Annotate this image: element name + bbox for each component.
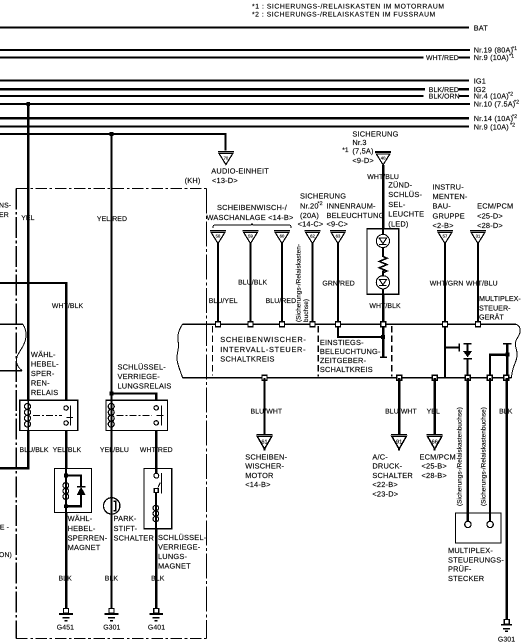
svg-text:(Sicherungs-/Relaiskasten-: (Sicherungs-/Relaiskasten- [295,244,302,322]
pin test connector on bottom bus [487,375,492,380]
node Nr.9 (10A) *1 label [474,53,514,62]
label WHT/GRN [430,280,464,287]
note *1 fuse/relay box engine compartment [252,4,445,11]
pin WHT/BLU on top bus [476,322,481,327]
pin GRN/RED on top bus [336,322,341,327]
svg-text:NS-: NS- [0,203,11,210]
svg-text:57: 57 [443,233,448,238]
svg-text:G301: G301 [498,636,515,643]
svg-text:SCHEIBENWISCHER-: SCHEIBENWISCHER- [220,335,306,344]
label YEL/RED [97,216,127,223]
svg-text:BLK: BLK [151,576,165,583]
divider dash-dot between wiper and entry light circuits [317,326,319,377]
label GRN/RED [322,280,354,287]
box SCHLUESSEL-VERRIEGELUNGS-MAGNET [144,469,172,529]
svg-text:<28-D>: <28-D> [477,221,503,230]
wire GRN/RED down to module pin [337,244,339,323]
svg-text:YEL/BLK: YEL/BLK [53,447,82,454]
wire BLK inside module [506,344,508,378]
svg-text:WHT/RED: WHT/RED [426,55,459,62]
svg-text:BLU/YEL: BLU/YEL [209,298,238,305]
relay K1 internal dash-dot link [33,414,62,416]
torn edge wave right [512,324,521,378]
svg-text:<2-B>: <2-B> [433,221,454,230]
label BLK right [499,408,513,415]
label A/C-DRUCK-SCHALTER <22-B> <23-D> [372,453,412,499]
solenoid L1 wire and coil [63,469,69,513]
svg-text:(Sicherungs-/Relaiskastenbuchs: (Sicherungs-/Relaiskastenbuchse) [481,407,488,506]
node IG1 label [474,76,486,85]
svg-text:<23-D>: <23-D> [372,489,398,498]
svg-text:BLU/WHT: BLU/WHT [385,408,417,415]
wire branch to test connector pin [490,355,507,378]
connector triangle 61 wiper motor [257,435,273,451]
svg-text:MAGNET: MAGNET [68,543,101,552]
wire to test connector pin 2 [489,378,491,521]
svg-text:SPER-: SPER- [31,369,55,378]
svg-text:WHT/BLU: WHT/BLU [466,280,498,287]
svg-text:58: 58 [216,233,221,238]
junction dot on audio line node B [110,132,114,136]
svg-text:G301: G301 [103,625,120,632]
connector triangle 63 interior light [330,231,346,244]
wire to test connector pin 1 [467,378,469,521]
svg-text:SICHERUNG: SICHERUNG [300,192,346,201]
svg-text:*1: *1 [342,147,349,154]
label SICHERUNG Nr.20 (20A) <14-C> [298,192,347,229]
svg-text:BAT: BAT [474,23,489,32]
wire BLK to ground G401 [155,529,157,609]
dashed box right edge [206,188,208,638]
svg-text:63: 63 [336,233,341,238]
wire WHT/BLU ECM down to module pin [477,244,479,323]
svg-text:WHT/BLK: WHT/BLK [52,303,84,310]
junction dot BLK branch [505,353,509,357]
svg-text:ZÜND-: ZÜND- [388,180,412,189]
wire stub Nr.9*1 [459,56,470,58]
label G401 [148,625,165,632]
relay K1 coil [25,400,31,430]
relay K2 switch contacts [154,405,163,425]
svg-text:ER: ER [0,212,9,219]
wire YEL to ECM [434,378,436,434]
wire fuse Nr.19 (80A) bus [0,49,470,51]
svg-text:BLK/ORN: BLK/ORN [429,94,460,101]
svg-text:ECM/PCM: ECM/PCM [420,453,456,462]
label SCHEIBENWISCHER-INTERVALL-STEUER-SCHALTKREIS [220,335,306,363]
wire IG2 bus BLK/RED [0,88,425,90]
svg-text:LEUCHTE: LEUCHTE [388,210,424,219]
label WHT/RED lock [140,447,173,454]
svg-text:40: 40 [381,156,386,161]
box MULTIPLEX test connector [456,513,502,543]
label BLU/RED [266,298,297,305]
svg-text:WHT/GRN: WHT/GRN [430,280,464,287]
svg-text:<25-B>: <25-B> [422,462,447,471]
label YEL/BLK [53,447,82,454]
label (KH) [185,176,201,185]
relay K2 coil [108,403,114,430]
svg-text:SCHLÜS-: SCHLÜS- [388,190,422,199]
label ECM/PCM <25-D> <28-D> [477,202,513,230]
svg-text:G451: G451 [57,625,74,632]
label G301 left [103,625,120,632]
label BLK G451 [59,576,73,583]
node BAT label [474,23,489,32]
LED unit box key light [367,229,399,295]
svg-text:MULTIPLEX-: MULTIPLEX- [479,294,521,303]
label BLU/YEL [209,298,238,305]
label ZUEND-SCHLUES-SEL-LEUCHTE (LED) [388,180,424,228]
svg-text:SCHALTER: SCHALTER [372,471,412,480]
svg-text:PARK-: PARK- [114,514,137,523]
wire BLU/BLK from relay K1 coil exits left [0,431,28,469]
wire fuse Nr.9 (10A)*2 bus [0,126,469,128]
svg-text:BLU/RED: BLU/RED [266,298,297,305]
relay K1 switch contacts [64,405,73,425]
label fragment ON) left edge [0,552,12,559]
label INNENRAUM-BELEUCHTUNG <9-C> [327,201,385,228]
connector triangle 62 fuse Nr.20 [305,231,321,244]
svg-text:VERRIEGE-: VERRIEGE- [158,543,201,552]
dashed box bottom edge [16,638,206,640]
svg-text:62: 62 [310,233,315,238]
junction dot solenoid top [64,474,68,478]
svg-text:(KH): (KH) [185,176,201,185]
svg-text:<14-B>: <14-B> [245,480,270,489]
label EINSTIEGS-BELEUCHTUNG-ZEITGEBER-SCHALTKREIS [320,338,381,374]
park pin switch symbol [104,498,120,514]
wire YEL/BLU from relay K2 coil to park pin switch [110,431,112,498]
svg-text:AUDIO-EINHEIT: AUDIO-EINHEIT [211,166,269,175]
dashed box around column relays top edge [16,187,206,189]
svg-text:INTERVALL-STEUER-: INTERVALL-STEUER- [220,345,306,354]
label AUDIO-EINHEIT <13-D> [211,166,269,185]
svg-text:BELEUCHTUNG: BELEUCHTUNG [327,211,385,220]
wire fuse Nr.9 (10A)*1 bus WHT/RED [0,56,423,58]
svg-text:BLK: BLK [499,408,513,415]
svg-text:*2: *2 [512,114,517,120]
module strip top bus main [183,323,516,325]
svg-text:SCHLÜSSEL-: SCHLÜSSEL- [118,362,167,371]
node Nr.9 (10A) *2 label [474,122,515,131]
branch of WHT/GRN with end bar [445,344,459,352]
wire fuse Nr.14 (10A) bus [0,117,469,119]
svg-text:<13-D>: <13-D> [212,176,238,185]
svg-text:WHT/BLK: WHT/BLK [369,303,401,310]
label ECM/PCM <25-B> <28-B> [420,453,456,480]
label SCHLUESSEL-VERRIEGE-LUNGSRELAIS [118,362,172,390]
svg-text:REN-: REN- [31,378,50,387]
label WHT/RED [426,55,459,62]
svg-text:GRUPPE: GRUPPE [433,211,465,220]
pin BLU/WHT AC on bottom bus [397,375,402,380]
svg-text:SEL-: SEL- [388,200,406,209]
svg-text:YEL: YEL [427,408,440,415]
svg-text:ZEITGEBER-: ZEITGEBER- [320,356,367,365]
connector triangle 60 wiper 3 [274,231,290,244]
svg-text:SPERREN-: SPERREN- [68,533,108,542]
label PARK-STIFT-SCHALTER [114,514,154,542]
connector triangle 59 wiper 2 [243,231,259,244]
junction dot YEL/RED branch [110,392,114,396]
connector triangle 31 ECM/PCM [470,231,486,244]
label WAEHL-HEBEL-SPERREN-MAGNET [68,514,108,552]
label BLU/BLK [238,280,267,287]
svg-text:SCHEIBENWISCH-/: SCHEIBENWISCH-/ [217,203,288,212]
wire BLU/YEL down to module pin [217,244,219,323]
label BLU/WHT AC [385,408,417,415]
diode D3 inside module [464,344,472,378]
wire BLU/WHT to AC switch [398,378,400,434]
divider dash-dot wiper circuit left [211,326,213,376]
label rotated (Sicherungs-/Relaiskasten- buchse) [295,244,310,322]
svg-text:SCHALTKREIS: SCHALTKREIS [220,354,275,363]
label rotated (Sicherungs-/Relaiskastenbuchse) 2 [481,407,488,506]
svg-text:60: 60 [280,233,285,238]
wire YEL/RED into relay K2 coil [110,393,112,403]
label BLU/WHT [251,408,283,415]
connector triangle 70 to audio unit [218,152,234,165]
label WAEHL-HEBEL-SPER-REN-RELAIS [31,350,59,397]
svg-text:91: 91 [396,439,402,445]
wire WHT/RED from relay K2 switch to lock solenoid [155,431,157,469]
svg-text:<28-B>: <28-B> [422,471,447,480]
label INSTRU-MENTEN-BAU-GRUPPE <2-B> [433,183,468,230]
svg-text:BLK: BLK [59,576,73,583]
relay K2 box key interlock relay [106,400,168,430]
divider dash-dot before multiplex area [391,326,393,377]
svg-text:WÄHL-: WÄHL- [68,514,93,523]
svg-text:MAGNET: MAGNET [158,562,191,571]
pin WHT/BLK on top bus [381,322,386,327]
svg-text:(LED): (LED) [388,220,408,229]
svg-text:WÄHL-: WÄHL- [31,350,56,359]
svg-text:STIFT-: STIFT- [114,524,138,533]
junction dot solenoid bottom [64,504,68,508]
ground G301 left symbol [105,609,119,621]
wire BLK to ground G451 [65,513,67,609]
wire YEL vertical from Nr.10 line to relay 1 coil [27,104,29,401]
wire WHT/BLK inside module down to terminal [382,324,384,356]
svg-text:(20A): (20A) [300,211,319,220]
ground G301 right symbol [501,620,512,632]
wire YEL/RED vertical from audio line to relay 2 [110,134,112,395]
svg-text:GERÄT: GERÄT [479,313,504,322]
wire IG1 bus [0,80,469,82]
label WHT/BLK [369,303,401,310]
svg-text:*1: *1 [512,46,517,52]
svg-text:LE -: LE - [0,525,9,532]
brace over wiper connectors [213,224,291,229]
svg-text:61: 61 [261,439,267,445]
svg-text:MOTOR: MOTOR [245,471,273,480]
wire audio feed line to corner [0,134,225,151]
svg-text:<25-D>: <25-D> [477,211,503,220]
svg-text:LUNGSRELAIS: LUNGSRELAIS [118,382,172,391]
wire YEL/RED branch to relay K2 switch [112,393,157,401]
label WHT/BLU [367,174,399,181]
label BLU/BLK [20,447,49,454]
svg-text:59: 59 [248,233,253,238]
wire BAT bus [0,26,469,28]
pin BLU/RED on top bus [280,322,285,327]
svg-text:INSTRU-: INSTRU- [433,183,465,192]
svg-text:SCHEIBEN-: SCHEIBEN- [245,453,287,462]
connector triangle 91 AC switch [391,435,407,451]
connector triangle 58 wiper 1 [210,231,226,244]
wire GRN/RED inside module to junction [338,324,383,337]
svg-text:MULTIPLEX-: MULTIPLEX- [448,546,493,555]
svg-text:BAU-: BAU- [433,202,452,211]
svg-text:<9-D>: <9-D> [352,156,374,165]
svg-text:SCHALTKREIS: SCHALTKREIS [320,365,373,374]
module strip bottom edge left stub [0,370,22,372]
svg-text:HEBEL-: HEBEL- [31,359,59,368]
wire inside LED box [382,229,384,257]
svg-text:ON): ON) [0,552,12,559]
svg-text:VERRIEGE-: VERRIEGE- [118,372,161,381]
label YEL ECM [427,408,440,415]
wire WHT/GRN inside module [444,324,446,377]
pin WHT/GRN on top bus [443,322,448,327]
svg-text:<14-C>: <14-C> [298,220,324,229]
svg-text:buchse): buchse) [303,299,310,322]
svg-text:*1 : SICHERUNGS-/RELAISKASTEN: *1 : SICHERUNGS-/RELAISKASTEN IM MOTORRA… [252,4,445,11]
wire BLU/RED down to module pin [281,244,283,323]
label BLK/ORN [429,94,460,101]
module strip bottom bus main [183,377,512,379]
svg-text:PRÜF-: PRÜF- [448,565,472,574]
node Nr.4 (10A) *2 label [474,92,513,101]
label SCHLUESSEL-VERRIEGE-LUNGS-MAGNET [158,533,207,571]
svg-text:BLU/BLK: BLU/BLK [20,447,49,454]
svg-text:66: 66 [432,439,438,445]
connector triangle 66 ECM [427,435,443,451]
svg-text:MENTEN-: MENTEN- [433,192,468,201]
diode branch terminal bar [464,343,472,345]
svg-text:DRUCK-: DRUCK- [372,462,402,471]
wire fuse Nr.10 (7.5A) bus [0,103,470,105]
svg-text:STEUER-: STEUER- [479,303,511,312]
label SICHERUNG Nr.3 *1 (7,5A) <9-D> [342,130,398,165]
LED D1 circle symbol [376,234,389,247]
label YEL/BLU [100,447,129,454]
svg-text:INNENRAUM-: INNENRAUM- [327,201,377,210]
relay K1 box shift lock relay [20,400,78,430]
wire BLK to ground G301 right [506,378,508,620]
svg-text:BLK: BLK [105,576,119,583]
label SCHEIBEN-WISCHER-MOTOR <14-B> [245,453,287,490]
svg-text:*2: *2 [514,100,519,106]
wire BLU/WHT to wiper motor [263,378,265,434]
pin BLU/WHT on bottom bus [262,375,267,380]
svg-text:*2: *2 [318,201,323,207]
svg-text:YEL/BLU: YEL/BLU [100,447,129,454]
label rotated (Sicherungs-/Relaiskastenbuchse) 1 [457,407,464,506]
svg-text:HEBEL-: HEBEL- [68,524,96,533]
label WHT/BLK relay feed [52,303,84,310]
svg-text:WISCHER-: WISCHER- [245,462,284,471]
svg-text:70: 70 [224,155,229,160]
svg-text:<22-B>: <22-B> [372,480,397,489]
svg-text:SCHLÜSSEL-: SCHLÜSSEL- [158,533,207,542]
label SCHEIBENWISCH-/WASCHANLAGE <14-B> [206,203,293,222]
pin BLU/YEL on top bus [216,322,221,327]
BLK branch terminal bar [503,343,511,345]
wire WHT/BLK feed from left edge to relay 1 switch [0,283,66,401]
label WHT/BLU ECM [466,280,498,287]
svg-text:STEUERUNGS-: STEUERUNGS- [448,555,504,564]
svg-text:Nr.9 (10A): Nr.9 (10A) [474,122,509,131]
svg-text:YEL/RED: YEL/RED [97,216,127,223]
relay K2 internal dash-dot link [117,414,153,416]
diode D4 flyback branch [66,475,85,506]
pin diode path on bottom bus [465,375,470,380]
svg-text:BLU/WHT: BLU/WHT [251,408,283,415]
label G301 right [498,636,515,643]
svg-text:WASCHANLAGE <14-B>: WASCHANLAGE <14-B> [206,213,293,222]
ground G451 symbol [59,609,73,621]
torn edge wave left [16,324,26,370]
label BLK G301 left [105,576,119,583]
terminal bar end of WHT/BLK branch [380,356,387,358]
svg-text:*2: *2 [508,92,513,98]
svg-text:*2 : SICHERUNGS-/RELAISKASTEN: *2 : SICHERUNGS-/RELAISKASTEN IM FUSSRAU… [252,12,436,19]
svg-text:Nr.10 (7.5A): Nr.10 (7.5A) [474,100,516,109]
ground G401 symbol [149,609,163,621]
svg-text:G401: G401 [148,625,165,632]
wire BLU/BLK down to module pin [249,244,251,323]
wire YEL/BLK from relay K1 switch to magnet [65,431,67,469]
label G451 [57,625,74,632]
module strip top bus left stub [0,323,23,325]
label fragment ER left edge [0,212,9,219]
wire stub IG2 [459,88,469,90]
label fragment NS- left edge [0,203,11,210]
pin BLK ground on bottom bus [504,375,509,380]
svg-text:A/C-: A/C- [372,453,388,462]
LED D2 circle symbol [376,276,389,289]
svg-text:(7,5A): (7,5A) [352,147,373,156]
junction dot GRN/RED + WHT/BLK [381,335,385,339]
dashed box left edge [15,188,17,638]
label MULTIPLEX-STEUERUNGS-PRUEF-STECKER [448,546,504,583]
svg-text:RELAIS: RELAIS [31,388,59,397]
svg-text:LUNGS-: LUNGS- [158,552,187,561]
node Nr.14 (10A) *2 label [474,114,517,123]
wire WHT/BLK from LED to module pin [382,294,384,322]
svg-text:SCHALTER: SCHALTER [114,533,154,542]
wire fuse Nr.4 bus BLK/ORN [0,95,423,97]
svg-text:STECKER: STECKER [448,574,484,583]
pin BLU/BLK on top bus [248,322,253,327]
wire WHT/BLU from fuse Nr.3 to LED [382,165,384,230]
svg-text:ECM/PCM: ECM/PCM [477,202,513,211]
svg-text:<9-C>: <9-C> [327,220,349,229]
wire BLK to ground G301 left [110,514,112,609]
svg-text:(Sicherungs-/Relaiskastenbuchs: (Sicherungs-/Relaiskastenbuchse) [457,407,464,506]
node IG2 label [474,85,486,94]
torn edge wave middle [177,324,183,378]
label BLK/RED [429,87,459,94]
svg-text:*2: *2 [510,122,515,128]
connector triangle 57 instrument cluster [437,231,453,244]
svg-text:GRN/RED: GRN/RED [322,280,354,287]
pin fuse Nr.20 on top bus [310,322,315,327]
pin circle test connector 1 [465,521,471,527]
junction dot on Nr.10 line node A [26,102,30,106]
